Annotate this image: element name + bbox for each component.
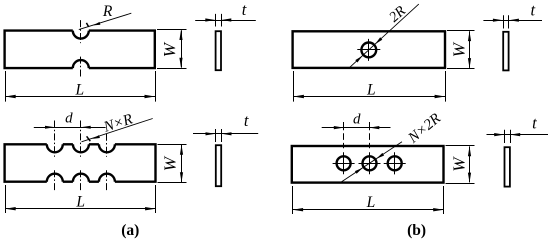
svg-text:L: L [75, 194, 85, 211]
svg-text:t: t [532, 114, 537, 133]
svg-text:t: t [244, 111, 249, 130]
svg-text:R: R [102, 3, 113, 20]
svg-text:N×R: N×R [101, 111, 135, 136]
svg-text:W: W [449, 156, 468, 172]
svg-text:L: L [74, 82, 84, 99]
svg-text:N×2R: N×2R [405, 110, 444, 147]
svg-text:W: W [160, 155, 179, 171]
svg-text:W: W [449, 41, 468, 57]
svg-text:d: d [353, 111, 361, 127]
svg-text:(a): (a) [121, 222, 139, 239]
svg-text:L: L [366, 194, 376, 211]
svg-text:L: L [366, 82, 376, 99]
svg-text:t: t [531, 1, 536, 20]
svg-text:2R: 2R [386, 3, 409, 26]
svg-text:(b): (b) [407, 222, 426, 239]
svg-text:t: t [242, 0, 247, 19]
svg-text:d: d [65, 111, 73, 127]
svg-text:W: W [160, 41, 179, 57]
